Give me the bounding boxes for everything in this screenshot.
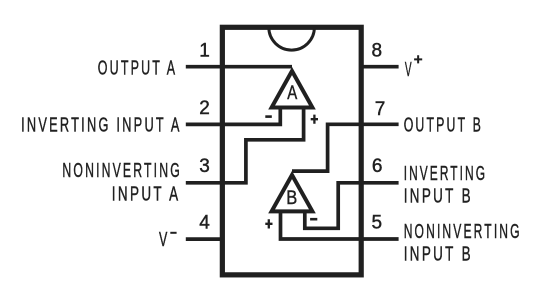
svg-text:4: 4 bbox=[199, 212, 210, 233]
svg-text:V: V bbox=[405, 59, 414, 81]
op-amp B minus sign bbox=[310, 218, 317, 221]
svg-text:OUTPUT B: OUTPUT B bbox=[404, 114, 483, 136]
wire pin 2 INVERTING INPUT A to op-amp A inverting input bbox=[186, 106, 280, 125]
superscript plus of V+ bbox=[414, 55, 422, 63]
wire pin 5 NONINVERTING INPUT B to op-amp B noninverting input bbox=[281, 211, 399, 239]
svg-text:NONINVERTING: NONINVERTING bbox=[404, 221, 522, 243]
wire pin 7 OUTPUT B to op-amp B output (apex) bbox=[292, 124, 399, 171]
svg-text:5: 5 bbox=[372, 212, 383, 233]
op-amp B plus sign bbox=[265, 219, 272, 228]
svg-text:OUTPUT A: OUTPUT A bbox=[98, 58, 178, 80]
svg-text:INPUT B: INPUT B bbox=[404, 244, 473, 266]
op-amp A minus sign bbox=[265, 115, 272, 118]
wire pin 4 V- stub bbox=[186, 237, 223, 241]
svg-text:INPUT A: INPUT A bbox=[112, 183, 181, 205]
op-amp A triangle bbox=[272, 71, 313, 108]
svg-text:6: 6 bbox=[372, 156, 383, 177]
op-amp A plus sign bbox=[311, 115, 318, 124]
svg-text:1: 1 bbox=[199, 41, 210, 62]
pin-1 orientation notch bbox=[269, 27, 315, 50]
svg-text:INVERTING INPUT A: INVERTING INPUT A bbox=[21, 114, 182, 136]
svg-text:8: 8 bbox=[372, 41, 383, 62]
svg-text:V: V bbox=[159, 229, 170, 251]
svg-text:3: 3 bbox=[199, 156, 210, 177]
svg-text:B: B bbox=[286, 188, 297, 209]
superscript minus of V- bbox=[170, 232, 176, 234]
op-amp B triangle bbox=[272, 175, 313, 211]
IC package U1 (DIP-8 outline, top view) bbox=[222, 27, 361, 275]
svg-text:INPUT B: INPUT B bbox=[404, 186, 473, 208]
wire pin 6 INVERTING INPUT B to op-amp B inverting input bbox=[305, 183, 399, 229]
svg-text:INVERTING: INVERTING bbox=[404, 163, 487, 185]
wire pin 1 OUTPUT A to op-amp A output (apex) bbox=[186, 65, 292, 69]
svg-text:2: 2 bbox=[199, 98, 210, 119]
wire pin 8 V+ stub bbox=[361, 65, 398, 69]
wire pin 3 NONINVERTING INPUT A to op-amp A noninverting input bbox=[186, 106, 304, 183]
svg-text:7: 7 bbox=[375, 99, 386, 120]
svg-text:NONINVERTING: NONINVERTING bbox=[62, 160, 182, 182]
svg-text:A: A bbox=[287, 83, 297, 104]
